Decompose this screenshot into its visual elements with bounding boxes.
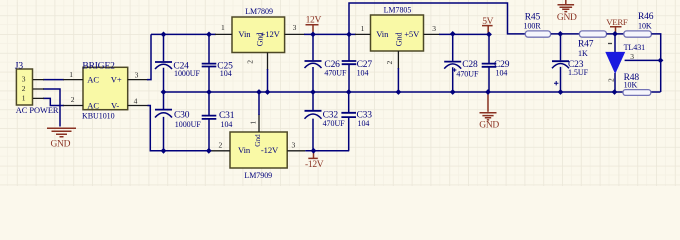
svg-text:2: 2: [385, 61, 394, 65]
capacitor C32: [305, 92, 346, 151]
ground GND3: [479, 92, 499, 130]
svg-text:3: 3: [293, 23, 297, 32]
junction 12V net / C27 / bypass rail: [346, 32, 352, 38]
wire U7909 out -12V: [305, 150, 349, 152]
svg-text:KBU1010: KBU1010: [82, 111, 115, 120]
svg-text:+12V: +12V: [261, 29, 281, 39]
svg-text:470UF: 470UF: [323, 119, 346, 128]
net label 12V: [306, 16, 322, 34]
pin stubs bridge: [63, 80, 149, 106]
wire U7805 gnd to ground rail: [397, 68, 399, 92]
junction node A R45-R47 / C23: [557, 31, 563, 37]
svg-text:2: 2: [219, 140, 223, 149]
ground GND1: [47, 128, 76, 149]
svg-text:Vin: Vin: [376, 29, 389, 39]
ground GND2: [557, 0, 577, 23]
junction VERF net / TL431 cathode: [612, 31, 618, 37]
svg-text:J3: J3: [15, 61, 24, 71]
junction GND rail / C27-C33: [346, 89, 352, 95]
svg-text:V-: V-: [111, 100, 119, 110]
svg-text:Gnd: Gnd: [394, 32, 403, 46]
junction 5V net / C29 / 5V power port: [486, 32, 492, 38]
resistor R48: [623, 73, 651, 96]
svg-text:1.5UF: 1.5UF: [568, 68, 589, 77]
capacitor C29: [482, 34, 510, 92]
wire R47 to VERF node: [607, 33, 624, 35]
transistor TL431 D9: [606, 34, 645, 92]
wire U7909 gnd to ground rail: [258, 92, 260, 115]
junction 12V net / C26 / 12V power port: [310, 32, 316, 38]
junction GND rail / C25-C31: [206, 89, 212, 95]
svg-text:Vin: Vin: [238, 145, 251, 155]
svg-text:104: 104: [358, 119, 370, 128]
svg-text:1: 1: [361, 24, 365, 33]
svg-text:2: 2: [606, 78, 615, 82]
junction -12V net / C32 / -12V power port: [311, 148, 317, 154]
svg-text:2: 2: [71, 95, 75, 104]
regulator U7909 LM7909: [219, 121, 296, 181]
svg-text:4: 4: [134, 97, 138, 106]
svg-text:104: 104: [357, 68, 369, 77]
junction raw+ rail / C24: [161, 32, 167, 38]
junction raw+ rail / C25: [206, 32, 212, 38]
svg-text:1000UF: 1000UF: [174, 69, 201, 78]
regulator U7809 LM7809: [221, 7, 297, 64]
pin stubs J3: [33, 80, 44, 99]
svg-text:3: 3: [630, 52, 634, 61]
capacitor C25: [202, 34, 233, 92]
capacitor C26: [305, 34, 347, 92]
capacitor C24: [155, 34, 201, 92]
svg-text:R47: R47: [578, 39, 594, 49]
bridge BRIGE2: [69, 61, 138, 120]
wire TL431 ref: [625, 59, 661, 61]
wire U7809 gnd to ground rail: [267, 69, 269, 92]
svg-text:VERF: VERF: [606, 17, 628, 27]
svg-text:3: 3: [135, 70, 139, 79]
pin stubs U7909: [210, 114, 305, 151]
svg-text:104: 104: [220, 69, 232, 78]
svg-text:1: 1: [221, 23, 225, 32]
svg-text:Vin: Vin: [238, 29, 251, 39]
capacitor C28: [444, 34, 479, 92]
junction GND rail / TL431 anode: [612, 89, 618, 95]
junction GND rail / U7805 gnd: [396, 89, 402, 95]
wire J3 pin2 to GND: [43, 89, 60, 127]
svg-text:100R: 100R: [524, 21, 542, 30]
svg-text:104: 104: [221, 120, 233, 129]
svg-text:1: 1: [69, 70, 73, 79]
svg-text:-12V: -12V: [261, 145, 279, 155]
net label -12V: [305, 151, 324, 171]
svg-text:1K: 1K: [578, 49, 588, 58]
svg-text:-12V: -12V: [305, 160, 324, 170]
resistor R45: [524, 13, 551, 38]
svg-text:470UF: 470UF: [456, 70, 479, 79]
svg-text:AC: AC: [87, 100, 99, 110]
svg-text:LM7809: LM7809: [245, 7, 273, 16]
svg-text:TL431: TL431: [624, 43, 646, 52]
pin stubs U7805: [355, 34, 440, 69]
junction raw- rail / C31: [206, 148, 212, 154]
capacitor C31: [202, 92, 235, 151]
net label VERF: [606, 17, 628, 34]
svg-text:C30: C30: [174, 111, 190, 121]
resistor R47: [578, 31, 607, 58]
svg-text:1000UF: 1000UF: [175, 120, 202, 129]
junction raw- rail / C30: [161, 148, 167, 154]
svg-text:AC POWER: AC POWER: [16, 106, 59, 115]
svg-text:470UF: 470UF: [324, 68, 347, 77]
wire 12V rail U7809 out to U7805 in: [304, 33, 356, 35]
wire J3 pin1 to bridge pin2: [43, 98, 64, 105]
junction GND rail / U7909 gnd: [256, 89, 262, 95]
svg-text:2: 2: [246, 60, 255, 64]
pin stubs U7809: [215, 34, 305, 70]
junction GND rail / C28: [450, 89, 456, 95]
capacitor C27: [342, 34, 373, 92]
svg-text:3: 3: [432, 24, 436, 33]
svg-text:BRIGE2: BRIGE2: [82, 61, 115, 71]
svg-text:1: 1: [22, 94, 26, 103]
wire R45 to node A: [551, 33, 580, 35]
junction GND rail / C23: [558, 89, 564, 95]
junction GND rail / C24-C30: [161, 89, 167, 95]
svg-text:V+: V+: [111, 75, 122, 85]
junction GND rail / C29 / GND port: [485, 89, 491, 95]
svg-text:104: 104: [496, 68, 508, 77]
junction GND rail / C26-C32: [310, 89, 316, 95]
regulator U7805 LM7805: [361, 6, 437, 65]
svg-text:+5V: +5V: [404, 29, 420, 39]
junction GND rail / U7809 gnd: [265, 89, 271, 95]
wire bridge V- down to negative rail: [148, 106, 212, 151]
top bypass rail 12V to R45: [349, 3, 525, 34]
svg-text:GND: GND: [557, 13, 577, 23]
wire J3 pin3 to bridge pin1: [43, 79, 64, 81]
capacitor C33: [341, 92, 372, 151]
wire input rail to U7809 Vin: [151, 33, 216, 35]
svg-text:10K: 10K: [638, 21, 652, 30]
svg-text:LM7805: LM7805: [384, 6, 412, 15]
svg-text:3: 3: [22, 75, 26, 84]
svg-text:GND: GND: [479, 120, 499, 130]
capacitor C23: [552, 34, 589, 92]
wire bridge V+ to input rail: [147, 34, 151, 79]
svg-text:GND: GND: [51, 140, 71, 150]
svg-text:2: 2: [22, 84, 26, 93]
junction 5V net / C28: [450, 31, 456, 37]
junction TL431 ref / R46-R48 divider: [658, 58, 664, 64]
svg-text:LM7909: LM7909: [244, 171, 272, 180]
wire U7805 out to 5V node: [439, 33, 489, 35]
ground rail: [164, 91, 661, 93]
resistor R46: [624, 12, 654, 37]
svg-text:3: 3: [292, 140, 296, 149]
capacitor C30: [155, 92, 201, 151]
wire R46 right loop down: [651, 34, 660, 92]
svg-text:1: 1: [248, 121, 257, 125]
svg-text:10K: 10K: [624, 80, 638, 89]
connector J3: [15, 61, 59, 115]
svg-text:AC: AC: [87, 75, 99, 85]
net label 5V: [482, 17, 494, 33]
